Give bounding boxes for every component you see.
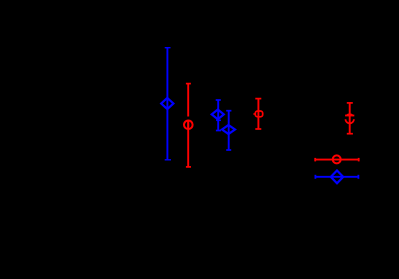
bottom cap xyxy=(347,133,353,135)
error bar series 1 point 2 (blue) xyxy=(212,100,224,131)
legend red circle xyxy=(333,155,341,163)
inner segment xyxy=(187,121,189,128)
top cap xyxy=(186,83,191,85)
top cap xyxy=(347,102,353,104)
diamond marker xyxy=(161,98,173,109)
legend blue line xyxy=(315,176,358,178)
wire xyxy=(217,100,219,131)
top cap xyxy=(216,99,221,101)
bottom cap xyxy=(255,128,261,130)
wire xyxy=(166,48,168,160)
diamond marker xyxy=(222,125,235,134)
legend entry red xyxy=(315,155,359,163)
legend entry blue xyxy=(315,171,358,184)
marker band xyxy=(345,115,354,117)
marker lower arc xyxy=(346,119,354,123)
error bar series 1 point 3 (blue) xyxy=(222,111,235,150)
legend red right tick xyxy=(358,158,360,162)
wire xyxy=(228,111,230,150)
bottom cap xyxy=(165,159,171,161)
left nub xyxy=(253,113,255,115)
circle marker xyxy=(184,121,193,130)
error bar series 2 point 3 (red) xyxy=(345,103,354,134)
wire lower xyxy=(187,120,189,167)
top cap xyxy=(226,110,231,112)
wire xyxy=(257,99,259,129)
squircle marker xyxy=(255,111,262,117)
error bar series 2 point 2 (red) xyxy=(253,99,262,129)
legend blue left tick xyxy=(314,175,316,179)
bottom cap xyxy=(216,130,221,132)
marker apex arc xyxy=(347,114,353,115)
legend blue diamond xyxy=(331,171,343,184)
top cap xyxy=(165,47,171,49)
wire xyxy=(349,103,351,134)
wire upper xyxy=(187,84,189,117)
error bar series 1 point 1 (blue) xyxy=(161,48,173,160)
legend blue right tick xyxy=(357,175,359,179)
diamond marker xyxy=(212,110,224,120)
top cap xyxy=(255,98,261,100)
bottom cap xyxy=(186,166,191,168)
wide inner cap xyxy=(216,119,221,121)
error bar series 2 point 1 (red) xyxy=(184,84,193,167)
legend red line xyxy=(315,159,359,161)
bottom cap xyxy=(226,149,231,151)
legend red left tick xyxy=(314,158,316,162)
